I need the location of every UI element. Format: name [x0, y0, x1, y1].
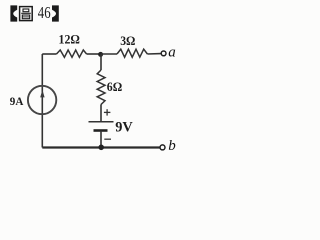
wire between R12 and node [87, 53, 101, 55]
svg-text:6Ω: 6Ω [107, 80, 122, 94]
current source I1 circle [28, 86, 56, 114]
battery minus sign [104, 138, 111, 140]
wire R6 to battery [100, 105, 102, 122]
battery V1 long plate [89, 121, 114, 123]
resistor R 12ohm zigzag [57, 50, 87, 57]
wire R3 to terminal a [147, 53, 161, 55]
resistor R 3ohm zigzag [117, 49, 147, 57]
svg-text:a: a [168, 44, 176, 60]
svg-text:9A: 9A [10, 94, 24, 108]
wire middle branch upper [100, 54, 102, 70]
battery V1 short thick plate [94, 129, 108, 132]
terminal b circle [160, 145, 165, 150]
terminal a circle [161, 51, 166, 56]
svg-text:46: 46 [38, 3, 51, 22]
svg-text:9V: 9V [115, 120, 133, 136]
wire node to R3 [101, 53, 117, 55]
current source arrow head [40, 90, 44, 98]
battery plus sign [104, 109, 111, 115]
wire battery to bottom [100, 131, 102, 148]
node junction top dot [98, 52, 103, 57]
figure title 【圖 46】 [10, 3, 58, 22]
wire top left segment [42, 53, 56, 55]
svg-text:12Ω: 12Ω [59, 32, 80, 46]
node junction bottom dot [98, 145, 104, 151]
svg-text:b: b [168, 138, 176, 154]
wire left vertical [41, 54, 43, 148]
wire bottom [42, 146, 160, 148]
svg-text:3Ω: 3Ω [120, 34, 135, 48]
resistor R 6ohm vertical zigzag [97, 70, 105, 105]
